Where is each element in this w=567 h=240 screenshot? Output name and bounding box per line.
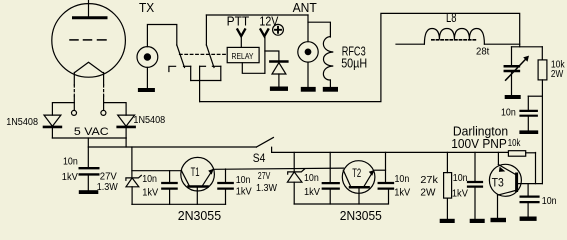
- svg-text:TX: TX: [139, 1, 155, 15]
- svg-text:10n: 10n: [236, 175, 251, 186]
- svg-text:1kV: 1kV: [452, 188, 468, 199]
- svg-text:RELAY: RELAY: [232, 52, 255, 61]
- svg-text:T3: T3: [492, 177, 504, 189]
- svg-text:1.3W: 1.3W: [97, 182, 119, 193]
- svg-text:1kV: 1kV: [304, 187, 320, 198]
- svg-text:10n: 10n: [542, 196, 557, 207]
- svg-text:PTT: PTT: [227, 15, 250, 29]
- svg-text:10n: 10n: [63, 156, 78, 167]
- svg-text:28t: 28t: [476, 46, 490, 57]
- svg-text:50µH: 50µH: [341, 57, 367, 71]
- svg-text:1.3W: 1.3W: [256, 183, 278, 194]
- svg-text:S4: S4: [253, 153, 266, 165]
- svg-text:100V PNP: 100V PNP: [451, 137, 507, 151]
- svg-text:10k: 10k: [508, 138, 521, 149]
- svg-text:1kV: 1kV: [142, 187, 158, 198]
- svg-text:T2: T2: [352, 168, 361, 180]
- svg-text:27k: 27k: [420, 175, 439, 186]
- svg-text:27V: 27V: [258, 171, 271, 182]
- svg-text:27V: 27V: [100, 171, 117, 182]
- svg-text:1N5408: 1N5408: [6, 117, 38, 128]
- svg-text:10n: 10n: [304, 173, 319, 184]
- svg-text:1kV: 1kV: [236, 186, 252, 197]
- svg-text:1kV: 1kV: [62, 172, 78, 183]
- svg-text:10n: 10n: [501, 107, 516, 118]
- svg-text:2N3055: 2N3055: [340, 209, 382, 223]
- svg-text:2N3055: 2N3055: [178, 209, 221, 223]
- svg-text:10n: 10n: [142, 174, 157, 185]
- svg-text:2W: 2W: [551, 69, 564, 80]
- svg-text:10n: 10n: [453, 173, 468, 184]
- svg-text:T1: T1: [191, 167, 200, 179]
- svg-text:1N5408: 1N5408: [133, 115, 165, 126]
- svg-text:ANT: ANT: [293, 1, 318, 15]
- svg-text:5 VAC: 5 VAC: [74, 126, 109, 138]
- svg-text:12V: 12V: [259, 15, 279, 29]
- svg-text:L8: L8: [446, 11, 457, 25]
- svg-text:10n: 10n: [395, 174, 410, 185]
- svg-text:1kV: 1kV: [394, 187, 410, 198]
- svg-text:2W: 2W: [420, 187, 436, 198]
